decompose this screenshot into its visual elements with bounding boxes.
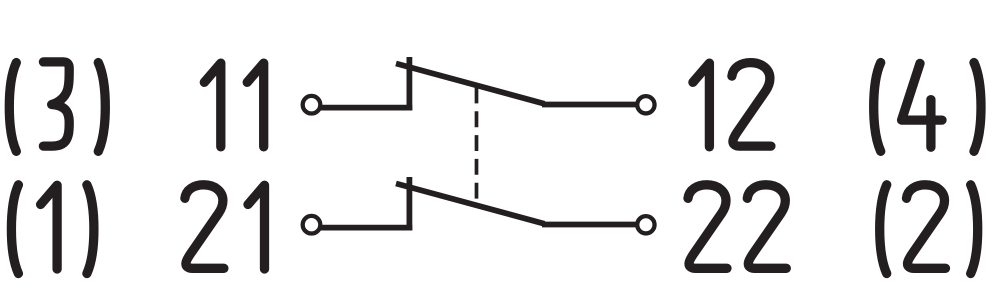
wire 12 — [542, 102, 637, 108]
terminal label 22 — [688, 185, 786, 268]
terminal label 11 — [204, 63, 263, 147]
terminal circle 12 — [637, 96, 654, 113]
terminal label 21 — [185, 185, 265, 269]
moving contact lever 11-12 — [396, 64, 545, 104]
terminal label (4) — [874, 63, 981, 152]
fixed contact post 21-22 — [406, 177, 412, 231]
terminal circle 21 — [303, 216, 321, 234]
terminal circle 11 — [303, 96, 321, 114]
wire 22 — [542, 222, 637, 228]
terminal label (1) — [11, 185, 94, 274]
wire 11 — [319, 105, 413, 111]
mechanical link (dashed) — [475, 88, 479, 199]
terminal label (2) — [880, 185, 978, 274]
terminal label (3) — [9, 62, 105, 151]
terminal label 12 — [693, 63, 771, 147]
moving contact lever 21-22 — [396, 184, 545, 224]
wire 21 — [319, 225, 413, 231]
fixed contact post 11-12 — [406, 57, 412, 111]
terminal circle 22 — [637, 216, 654, 233]
